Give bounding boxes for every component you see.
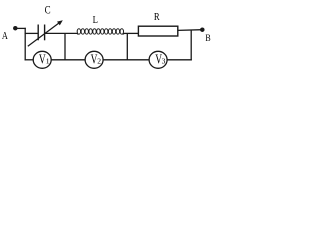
inductor L coil [77, 29, 124, 34]
svg-text:A: A [2, 31, 9, 42]
resistor R body [138, 26, 177, 36]
wire R to B [178, 29, 203, 32]
wire R-left tap vertical [126, 33, 128, 60]
bottom wire V3 to right tap [167, 59, 192, 61]
wire left tap to C [25, 32, 39, 34]
svg-text:R: R [154, 11, 160, 23]
bottom wire V2 to V3 [103, 59, 149, 61]
wire A to left tap [15, 27, 26, 29]
svg-text:L: L [93, 14, 98, 26]
wire right tap vertical [190, 30, 192, 61]
voltmeter V3 [149, 51, 167, 68]
capacitor C variable arrow [28, 20, 63, 46]
node A terminal dot [13, 26, 17, 31]
svg-text:1: 1 [46, 56, 50, 65]
svg-text:2: 2 [97, 56, 101, 65]
wire C to L [45, 32, 78, 34]
svg-text:3: 3 [162, 56, 166, 65]
wire left tap vertical [24, 28, 26, 61]
bottom wire left segment [25, 59, 34, 61]
wire L to R [123, 32, 138, 34]
wire mid tap vertical [64, 33, 66, 60]
bottom wire V1 to V2 [51, 59, 85, 61]
voltmeter V2 [85, 51, 103, 68]
svg-text:B: B [205, 33, 211, 44]
svg-text:C: C [45, 2, 51, 16]
node B terminal dot [200, 27, 205, 32]
voltmeter V1 [33, 51, 51, 68]
capacitor C right plate [44, 25, 46, 41]
capacitor C left plate [37, 25, 39, 41]
